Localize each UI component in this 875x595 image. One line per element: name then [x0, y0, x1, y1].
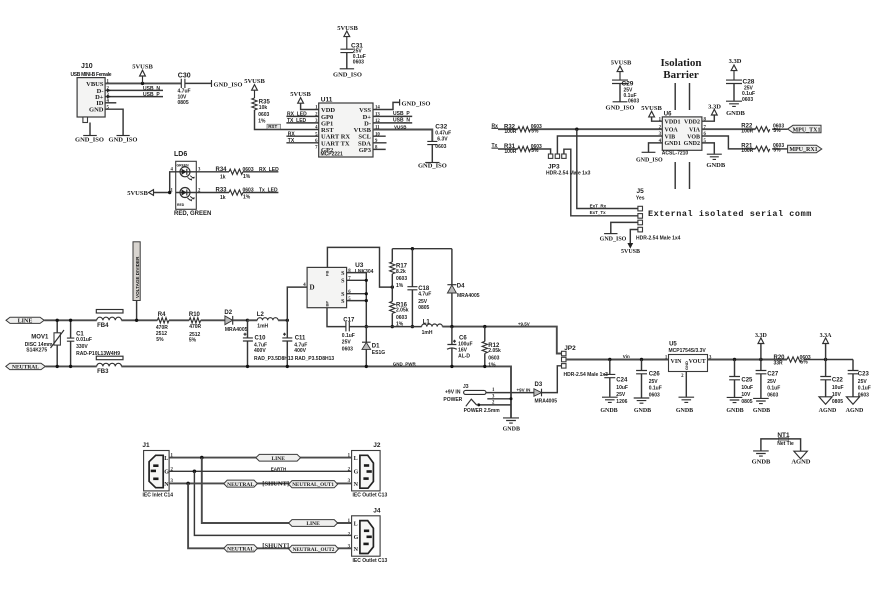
svg-text:+9V IN: +9V IN — [517, 387, 531, 392]
svg-text:GREEN: GREEN — [177, 164, 190, 168]
svg-text:GNDB: GNDB — [676, 408, 693, 414]
svg-text:U3: U3 — [355, 262, 364, 269]
svg-text:C30: C30 — [178, 72, 191, 79]
svg-text:RED, GREEN: RED, GREEN — [174, 211, 211, 217]
svg-text:400V: 400V — [294, 348, 306, 354]
svg-text:J5: J5 — [637, 188, 645, 195]
svg-text:RAD_P3.5D8H13: RAD_P3.5D8H13 — [295, 356, 335, 362]
svg-text:C17: C17 — [343, 318, 355, 324]
svg-text:C10: C10 — [255, 335, 267, 341]
svg-text:L: L — [354, 521, 358, 527]
svg-text:5%: 5% — [156, 337, 164, 343]
svg-text:HDR-2.54 Male 1x4: HDR-2.54 Male 1x4 — [636, 235, 681, 241]
svg-text:GND_ISO: GND_ISO — [75, 137, 104, 144]
svg-text:FB4: FB4 — [97, 323, 109, 329]
svg-text:5%: 5% — [773, 148, 781, 154]
svg-text:ExT_Tx: ExT_Tx — [590, 210, 607, 215]
svg-text:MPU_TX1: MPU_TX1 — [793, 127, 821, 133]
svg-text:MPU_RX1: MPU_RX1 — [789, 147, 817, 153]
svg-text:USB_N: USB_N — [143, 86, 160, 92]
svg-text:S14K275: S14K275 — [26, 347, 47, 353]
svg-text:AGND: AGND — [791, 459, 810, 466]
svg-text:GND_ISO: GND_ISO — [636, 157, 663, 163]
svg-text:VDD1: VDD1 — [665, 120, 681, 126]
svg-text:HDR-2.54 Male 1x3: HDR-2.54 Male 1x3 — [546, 171, 591, 177]
svg-text:5%: 5% — [189, 337, 197, 343]
svg-text:L2: L2 — [257, 312, 265, 318]
svg-text:ACSL-7210: ACSL-7210 — [662, 150, 689, 156]
svg-text:GND: GND — [684, 361, 689, 370]
svg-text:ExT_Rx: ExT_Rx — [590, 203, 607, 208]
svg-text:D1: D1 — [372, 344, 380, 350]
svg-text:C23: C23 — [858, 372, 870, 378]
svg-text:GND_ISO: GND_ISO — [418, 163, 447, 170]
svg-text:MCP2221: MCP2221 — [321, 151, 343, 157]
svg-text:Yes: Yes — [636, 196, 645, 202]
svg-text:5%: 5% — [801, 359, 809, 365]
svg-text:L: L — [354, 456, 358, 462]
svg-text:0.1uF: 0.1uF — [858, 386, 871, 392]
svg-text:1k: 1k — [220, 195, 226, 201]
svg-text:GND_ISO: GND_ISO — [402, 100, 431, 107]
svg-text:GNDB: GNDB — [752, 459, 771, 466]
svg-text:VIB: VIB — [665, 134, 676, 140]
svg-text:BP: BP — [324, 301, 329, 307]
svg-text:5VUSB: 5VUSB — [337, 25, 358, 32]
svg-text:GNDB: GNDB — [726, 110, 745, 117]
svg-text:C11: C11 — [295, 335, 306, 341]
svg-text:470R: 470R — [189, 324, 201, 330]
svg-text:External isolated serial comm: External isolated serial comm — [648, 209, 812, 219]
svg-text:IEC Inlet C14: IEC Inlet C14 — [143, 493, 174, 499]
svg-text:VBUS: VBUS — [86, 81, 104, 88]
svg-text:330V: 330V — [76, 344, 88, 350]
svg-text:U11: U11 — [321, 96, 333, 103]
svg-text:FB3: FB3 — [97, 369, 109, 375]
svg-text:0805: 0805 — [832, 399, 843, 405]
svg-text:EARTH: EARTH — [271, 466, 287, 471]
svg-text:ES1G: ES1G — [372, 350, 385, 356]
svg-text:VOLTAGE DIVIDER: VOLTAGE DIVIDER — [135, 256, 140, 298]
svg-text:+9V IN: +9V IN — [445, 390, 461, 396]
svg-text:R4: R4 — [158, 312, 166, 318]
svg-text:10V: 10V — [832, 392, 842, 398]
svg-text:Net Tie: Net Tie — [777, 441, 794, 447]
svg-text:R33: R33 — [216, 188, 228, 194]
svg-text:MRA4005: MRA4005 — [535, 398, 558, 404]
svg-text:Isolation: Isolation — [661, 57, 702, 69]
svg-text:D2: D2 — [224, 310, 232, 316]
svg-text:VDD2: VDD2 — [684, 120, 700, 126]
svg-text:VIA: VIA — [689, 128, 701, 134]
svg-text:C25: C25 — [741, 378, 753, 384]
svg-text:R34: R34 — [216, 167, 228, 173]
svg-text:NEUTRAL_OUT1: NEUTRAL_OUT1 — [292, 482, 334, 488]
svg-text:AGND: AGND — [819, 408, 837, 414]
svg-text:0.1uF: 0.1uF — [342, 333, 355, 339]
svg-text:GNDB: GNDB — [503, 426, 520, 432]
svg-text:5%: 5% — [773, 128, 781, 134]
svg-text:FB: FB — [324, 271, 329, 276]
svg-text:C26: C26 — [649, 372, 661, 378]
svg-text:J4: J4 — [373, 508, 381, 515]
svg-text:Barrier: Barrier — [663, 69, 699, 81]
svg-text:8.2k: 8.2k — [396, 269, 406, 275]
svg-text:0805: 0805 — [178, 100, 189, 106]
svg-text:25V: 25V — [616, 392, 626, 398]
svg-text:C22: C22 — [832, 378, 844, 384]
svg-text:10uF: 10uF — [616, 385, 628, 391]
svg-text:10V: 10V — [741, 392, 751, 398]
svg-text:LNK304: LNK304 — [355, 269, 374, 275]
svg-text:GND: GND — [89, 107, 104, 114]
svg-text:GNDB: GNDB — [706, 162, 725, 169]
svg-text:LINE: LINE — [271, 456, 285, 462]
svg-text:100R: 100R — [504, 129, 516, 135]
svg-text:GNDB: GNDB — [753, 408, 770, 414]
svg-text:3.3D: 3.3D — [729, 58, 742, 65]
svg-text:1mH: 1mH — [422, 330, 433, 336]
svg-text:D4: D4 — [457, 284, 465, 290]
svg-text:+9.5V: +9.5V — [518, 321, 530, 326]
svg-text:LINE: LINE — [18, 319, 33, 325]
svg-text:GND_ISO: GND_ISO — [214, 81, 243, 88]
svg-text:0603: 0603 — [488, 356, 499, 362]
svg-text:MRA4005: MRA4005 — [225, 327, 248, 333]
svg-text:25V: 25V — [649, 379, 659, 385]
svg-text:L1: L1 — [423, 320, 431, 326]
svg-text:GND2: GND2 — [684, 141, 700, 147]
svg-text:1%: 1% — [243, 195, 251, 201]
svg-text:10k: 10k — [259, 105, 268, 111]
svg-text:GP3: GP3 — [359, 147, 372, 154]
svg-text:2.05k: 2.05k — [396, 308, 409, 314]
svg-text:0603: 0603 — [628, 99, 639, 105]
svg-text:GNDB: GNDB — [726, 408, 743, 414]
svg-text:5%: 5% — [531, 148, 539, 154]
svg-text:J2: J2 — [373, 442, 381, 449]
svg-text:GND_ISO: GND_ISO — [109, 137, 138, 144]
svg-text:1mH: 1mH — [257, 323, 268, 329]
svg-text:0603: 0603 — [243, 188, 254, 194]
svg-text:10uF: 10uF — [741, 385, 753, 391]
svg-text:POWER: POWER — [443, 397, 462, 403]
svg-text:25V: 25V — [858, 379, 868, 385]
svg-text:GND_ISO: GND_ISO — [333, 71, 362, 78]
svg-text:1206: 1206 — [616, 399, 627, 405]
svg-text:G: G — [164, 470, 169, 476]
svg-text:IEC Outlet C13: IEC Outlet C13 — [353, 493, 388, 499]
svg-text:C27: C27 — [767, 372, 779, 378]
svg-text:3.3D: 3.3D — [708, 103, 721, 110]
svg-text:0.1uF: 0.1uF — [649, 386, 662, 392]
svg-text:NEUTRAL: NEUTRAL — [227, 547, 254, 553]
svg-text:NEUTRAL: NEUTRAL — [227, 482, 254, 488]
svg-text:VOB: VOB — [687, 134, 700, 140]
svg-text:D: D — [310, 284, 315, 292]
svg-text:RX_LED: RX_LED — [259, 167, 279, 173]
svg-text:GNDB: GNDB — [634, 408, 651, 414]
svg-text:VOA: VOA — [665, 128, 679, 134]
svg-text:IEC Outlet C13: IEC Outlet C13 — [353, 558, 388, 564]
svg-text:C6: C6 — [459, 336, 467, 342]
svg-text:MOV1: MOV1 — [31, 334, 49, 340]
svg-text:D3: D3 — [535, 382, 543, 388]
svg-text:RST: RST — [268, 124, 277, 129]
svg-text:100R: 100R — [504, 149, 516, 155]
svg-text:R10: R10 — [189, 312, 201, 318]
svg-text:0603: 0603 — [243, 167, 254, 173]
svg-text:0603: 0603 — [258, 112, 269, 118]
svg-text:VIN: VIN — [671, 359, 683, 365]
svg-text:25V: 25V — [342, 340, 352, 346]
svg-text:400V: 400V — [254, 348, 266, 354]
svg-text:C24: C24 — [616, 378, 628, 384]
svg-text:100R: 100R — [741, 129, 753, 135]
svg-text:GND1: GND1 — [665, 141, 681, 147]
svg-text:MRA4005: MRA4005 — [457, 293, 480, 299]
svg-text:POWER 2.5mm: POWER 2.5mm — [464, 408, 501, 414]
svg-text:2512: 2512 — [156, 331, 167, 337]
svg-text:L: L — [164, 456, 168, 462]
svg-text:J3: J3 — [463, 384, 469, 390]
svg-text:4.7uF: 4.7uF — [418, 292, 431, 298]
svg-text:0805: 0805 — [418, 305, 429, 311]
svg-text:5VUSB: 5VUSB — [611, 60, 632, 67]
svg-text:100R: 100R — [741, 148, 753, 154]
svg-text:N: N — [354, 547, 359, 553]
svg-text:G: G — [354, 535, 359, 541]
svg-text:USB_P: USB_P — [143, 92, 160, 98]
svg-text:Vin: Vin — [623, 354, 630, 359]
svg-text:5%: 5% — [531, 128, 539, 134]
svg-text:GND_ISO: GND_ISO — [606, 104, 635, 111]
svg-text:[SHUNT]: [SHUNT] — [262, 543, 289, 550]
svg-text:J10: J10 — [81, 63, 93, 70]
svg-text:USB MINI-B Female: USB MINI-B Female — [71, 72, 112, 78]
svg-text:N: N — [354, 482, 359, 488]
svg-text:0603: 0603 — [435, 144, 446, 150]
svg-text:1%: 1% — [396, 283, 404, 289]
svg-text:J1: J1 — [142, 442, 150, 449]
svg-text:25V: 25V — [767, 379, 777, 385]
svg-text:LINE: LINE — [306, 521, 320, 527]
svg-text:0603: 0603 — [396, 276, 407, 282]
svg-text:HDR-2.54 Male 1x3: HDR-2.54 Male 1x3 — [564, 372, 609, 378]
svg-text:N: N — [164, 482, 169, 488]
svg-text:NEUTRAL: NEUTRAL — [12, 365, 39, 371]
svg-text:0603: 0603 — [767, 393, 778, 399]
svg-text:0.01uF: 0.01uF — [76, 337, 92, 343]
svg-text:GND_PWR: GND_PWR — [393, 361, 417, 366]
svg-text:JP3: JP3 — [548, 164, 560, 171]
svg-text:MCP1754S/3.3V: MCP1754S/3.3V — [669, 348, 707, 354]
svg-text:GNDB: GNDB — [600, 408, 617, 414]
svg-text:33R: 33R — [774, 361, 784, 367]
svg-text:10uF: 10uF — [832, 385, 844, 391]
svg-text:[SHUNT]: [SHUNT] — [262, 481, 289, 488]
svg-text:1%: 1% — [258, 118, 266, 124]
svg-text:1%: 1% — [488, 362, 496, 368]
svg-text:RED: RED — [177, 203, 185, 207]
svg-text:0603: 0603 — [858, 393, 869, 399]
svg-text:1%: 1% — [243, 174, 251, 180]
svg-text:G: G — [354, 470, 359, 476]
svg-text:Tx_LED: Tx_LED — [259, 188, 278, 194]
svg-text:GND_ISO: GND_ISO — [600, 237, 627, 243]
svg-text:0.1uF: 0.1uF — [767, 386, 780, 392]
svg-text:0603: 0603 — [649, 393, 660, 399]
svg-text:LD6: LD6 — [174, 151, 187, 158]
svg-text:0603: 0603 — [342, 346, 353, 352]
svg-text:1k: 1k — [220, 174, 226, 180]
svg-text:2.05k: 2.05k — [488, 348, 501, 354]
svg-text:5VUSB: 5VUSB — [621, 249, 640, 255]
svg-text:0603: 0603 — [396, 315, 407, 321]
svg-text:NEUTRAL_OUT2: NEUTRAL_OUT2 — [293, 547, 335, 553]
svg-text:5VUSB: 5VUSB — [127, 190, 148, 197]
svg-text:6.3V: 6.3V — [437, 136, 448, 142]
svg-text:AGND: AGND — [846, 408, 864, 414]
svg-text:0603: 0603 — [742, 97, 753, 103]
svg-text:U5: U5 — [669, 342, 677, 348]
svg-text:0805: 0805 — [741, 399, 752, 405]
svg-text:16V: 16V — [458, 347, 468, 353]
svg-text:0603: 0603 — [353, 60, 364, 66]
svg-text:AL-D: AL-D — [458, 354, 470, 360]
svg-text:VOUT: VOUT — [689, 359, 706, 365]
